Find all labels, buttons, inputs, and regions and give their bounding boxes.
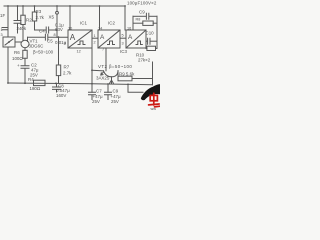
svg-text:5: 5 [122, 34, 124, 38]
svg-text:R7: R7 [64, 65, 70, 70]
svg-text:C9: C9 [113, 89, 119, 94]
svg-text:X5: X5 [49, 15, 55, 20]
svg-text:IC1: IC1 [80, 21, 87, 26]
svg-text:25V: 25V [92, 99, 100, 104]
svg-text:25V: 25V [111, 99, 119, 104]
svg-text:R9 5.6k: R9 5.6k [119, 72, 135, 77]
svg-text:1: 1 [64, 42, 66, 46]
svg-text:180Ω: 180Ω [30, 86, 41, 91]
svg-text:R3: R3 [36, 9, 42, 14]
svg-text:12: 12 [77, 50, 81, 54]
svg-text:14: 14 [98, 26, 102, 30]
svg-text:+: + [17, 63, 20, 68]
svg-text:β=50~100: β=50~100 [33, 50, 54, 55]
svg-text:R6: R6 [14, 50, 20, 55]
svg-text:ww: ww [151, 107, 157, 110]
svg-text:R8: R8 [136, 18, 141, 22]
svg-text:3: 3 [122, 42, 124, 46]
svg-text:240k: 240k [17, 26, 27, 31]
svg-text:27k×2: 27k×2 [138, 58, 151, 63]
svg-text:C5: C5 [47, 39, 53, 44]
svg-text:7: 7 [102, 48, 104, 52]
svg-text:C9: C9 [139, 10, 145, 15]
svg-text:R4: R4 [28, 77, 34, 82]
svg-text:C10: C10 [146, 31, 155, 36]
svg-text:A: A [128, 34, 133, 41]
svg-text:C4: C4 [39, 28, 45, 33]
svg-text:3AX25: 3AX25 [96, 76, 110, 81]
svg-text:25V: 25V [30, 73, 38, 78]
svg-text:VT2 β=50~100: VT2 β=50~100 [98, 64, 132, 69]
svg-text:A: A [100, 34, 105, 41]
svg-text:IC2: IC2 [108, 21, 115, 26]
svg-text:1: 1 [94, 34, 96, 38]
svg-text:1F: 1F [0, 13, 5, 18]
svg-text:C7: C7 [96, 89, 102, 94]
svg-text:160V: 160V [56, 93, 66, 98]
svg-text:2.7k: 2.7k [36, 15, 45, 20]
svg-text:8: 8 [54, 33, 56, 37]
svg-text:A: A [70, 33, 76, 42]
svg-text:IC3: IC3 [120, 49, 127, 54]
svg-text:63V: 63V [55, 27, 63, 32]
svg-text:10: 10 [68, 26, 72, 30]
svg-text:3: 3 [1, 33, 3, 37]
svg-text:16: 16 [127, 26, 131, 30]
svg-text:100μF100V×2: 100μF100V×2 [127, 1, 157, 6]
svg-text:2.7k: 2.7k [63, 71, 72, 76]
svg-text:100Ω: 100Ω [12, 56, 23, 61]
svg-text:R2: R2 [26, 18, 32, 23]
svg-text:2: 2 [94, 41, 96, 45]
svg-text:3DG6C: 3DG6C [29, 44, 45, 49]
